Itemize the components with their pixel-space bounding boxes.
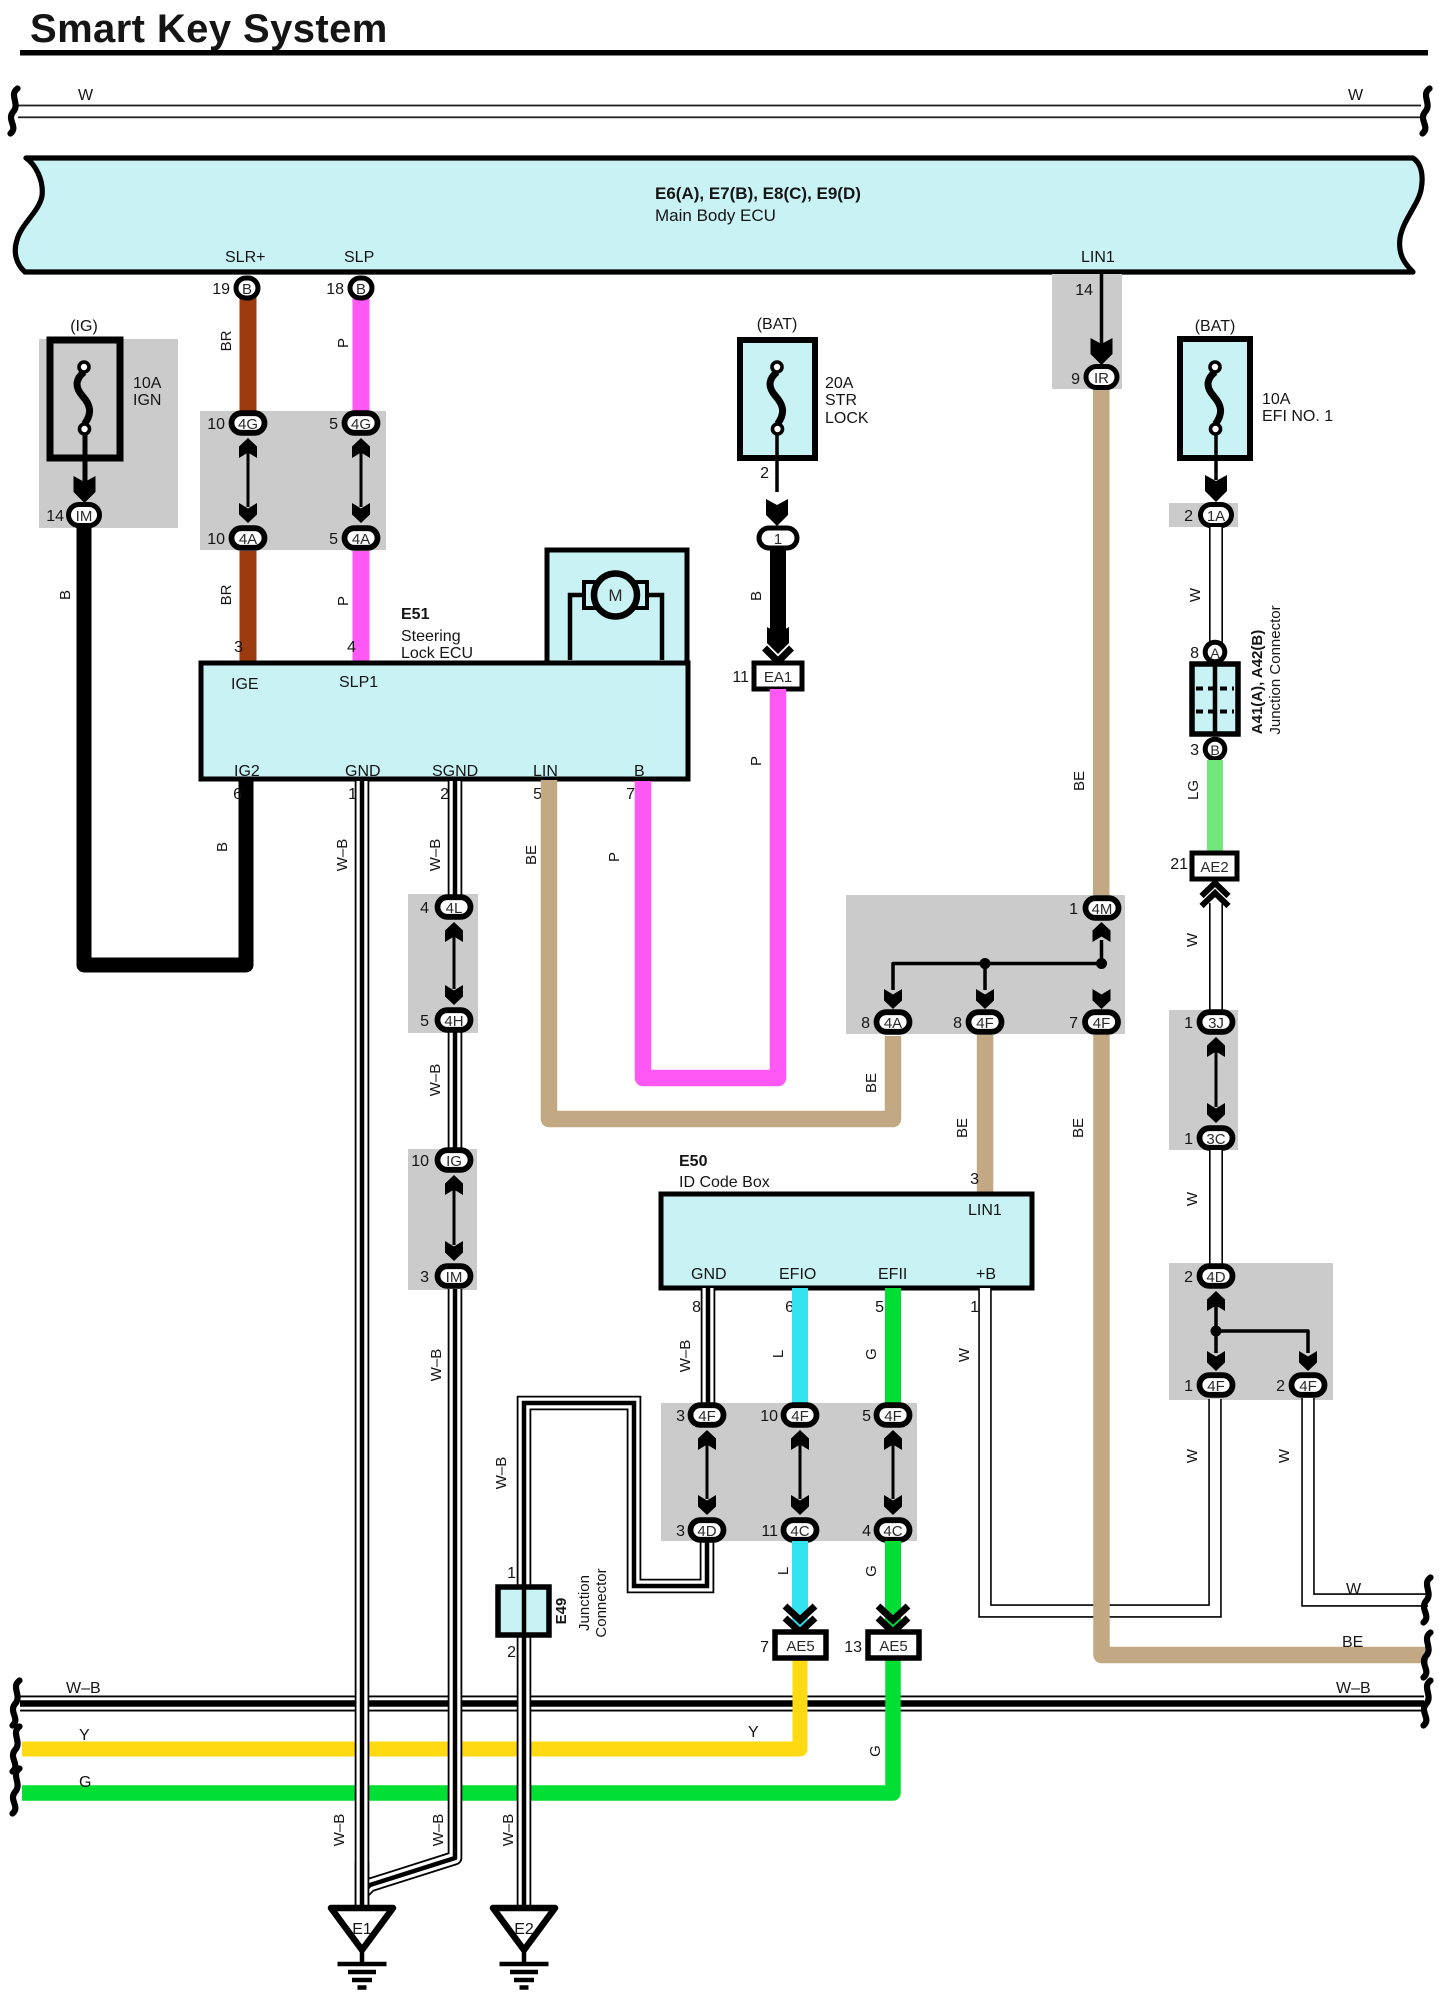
svg-text:B: B bbox=[57, 590, 74, 600]
arrow up into AE2 bbox=[1202, 883, 1229, 906]
svg-text:G: G bbox=[79, 1774, 91, 1791]
connector 4H pin 5 bbox=[438, 1010, 471, 1030]
svg-text:LOCK: LOCK bbox=[825, 410, 869, 427]
gray panel 1A bbox=[1169, 503, 1238, 527]
wire L from E50 EFIO to 4F bbox=[792, 1288, 808, 1404]
svg-text:W: W bbox=[1346, 1581, 1362, 1598]
wire B from connector 1 to EA1 bbox=[770, 548, 786, 640]
svg-text:Y: Y bbox=[79, 1727, 90, 1744]
svg-text:W: W bbox=[1184, 1448, 1201, 1463]
svg-text:ID Code Box: ID Code Box bbox=[679, 1174, 770, 1191]
svg-text:2: 2 bbox=[1184, 508, 1193, 525]
wire W from 4F2 to right edge bbox=[1308, 1398, 1428, 1600]
wire G from E50 EFII to 4F bbox=[885, 1288, 901, 1404]
svg-text:3: 3 bbox=[676, 1408, 685, 1425]
svg-text:5: 5 bbox=[329, 531, 338, 548]
svg-text:BE: BE bbox=[523, 845, 540, 865]
svg-text:4: 4 bbox=[862, 1523, 871, 1540]
svg-text:W–B: W–B bbox=[500, 1814, 517, 1847]
svg-text:W: W bbox=[1187, 587, 1204, 602]
svg-text:4F: 4F bbox=[1299, 1378, 1317, 1395]
connector 4D pin 2 bbox=[1200, 1266, 1233, 1286]
svg-text:2: 2 bbox=[760, 465, 769, 482]
svg-text:1: 1 bbox=[1184, 1378, 1193, 1395]
svg-text:W–B: W–B bbox=[430, 1814, 447, 1847]
wire G from 4C4 to AE5 bbox=[885, 1541, 901, 1628]
svg-text:7: 7 bbox=[760, 1639, 769, 1656]
wire W from E50 +B to 4F1 bbox=[985, 1288, 1215, 1611]
svg-text:13: 13 bbox=[844, 1639, 862, 1656]
gray panel 3J/3C bbox=[1169, 1010, 1238, 1150]
connector 3J pin 1 bbox=[1200, 1012, 1233, 1032]
svg-text:4F: 4F bbox=[1093, 1015, 1111, 1032]
svg-text:1A: 1A bbox=[1207, 508, 1225, 525]
wire BE from E51 LIN to 4A bbox=[549, 780, 893, 1119]
svg-text:A: A bbox=[1210, 645, 1220, 661]
svg-text:SLP1: SLP1 bbox=[339, 674, 378, 691]
wire LG from B to AE2 bbox=[1207, 760, 1223, 854]
svg-text:E6(A), E7(B), E8(C), E9(D): E6(A), E7(B), E8(C), E9(D) bbox=[655, 184, 861, 203]
svg-text:3: 3 bbox=[234, 639, 243, 656]
junction arrows 4L to 4H bbox=[445, 922, 463, 1005]
svg-text:Y: Y bbox=[748, 1724, 759, 1741]
svg-text:10A: 10A bbox=[133, 375, 162, 392]
junction arrows IG to IM bbox=[445, 1175, 463, 1261]
connector AE2 pin 21 bbox=[1192, 853, 1237, 879]
junction arrows 3J to 3C bbox=[1207, 1037, 1225, 1123]
svg-text:P: P bbox=[335, 596, 352, 606]
connector 4F pin 8 bbox=[969, 1012, 1002, 1032]
wire BR upper segment bbox=[240, 297, 257, 411]
bus wire G from AE5 no.13 bbox=[22, 1658, 893, 1793]
svg-text:G: G bbox=[863, 1348, 880, 1360]
svg-text:1: 1 bbox=[774, 531, 782, 548]
continuation mark top-right bbox=[1423, 89, 1430, 134]
svg-text:BE: BE bbox=[954, 1118, 971, 1138]
svg-text:B: B bbox=[634, 763, 645, 780]
pin 18 connector B bbox=[350, 278, 372, 298]
svg-text:L: L bbox=[775, 1567, 792, 1575]
junction arrows 4G to 4A col2 bbox=[352, 438, 370, 523]
connector 4F pin 2 bbox=[1292, 1375, 1325, 1395]
svg-text:LIN1: LIN1 bbox=[968, 1202, 1002, 1219]
connector 4F pin 3 bbox=[691, 1405, 724, 1425]
fuse 10A EFI NO.1 bbox=[1180, 318, 1333, 502]
wire W-B from E51 SGND upper bbox=[448, 781, 463, 896]
svg-text:E1: E1 bbox=[352, 1921, 372, 1938]
svg-text:19: 19 bbox=[212, 281, 230, 298]
svg-text:4A: 4A bbox=[239, 531, 257, 548]
svg-text:1: 1 bbox=[1069, 901, 1078, 918]
svg-text:M: M bbox=[608, 586, 622, 605]
svg-text:5: 5 bbox=[533, 786, 542, 803]
wire L from 4C11 to AE5 bbox=[792, 1541, 808, 1628]
svg-text:W: W bbox=[1348, 87, 1364, 104]
svg-text:3: 3 bbox=[676, 1523, 685, 1540]
junction arrows 4F to 4C col2 bbox=[791, 1430, 809, 1515]
junction arrows 4G to 4A col1 bbox=[239, 438, 257, 523]
svg-text:7: 7 bbox=[626, 786, 635, 803]
wire P lower segment bbox=[353, 551, 370, 663]
junction arrows 4F to 4D col1 bbox=[698, 1430, 716, 1515]
connector 4G pin 5 bbox=[345, 413, 378, 433]
continuation mark Y left bbox=[13, 1727, 20, 1772]
svg-text:G: G bbox=[863, 1565, 880, 1577]
connector 3C pin 1 bbox=[1200, 1128, 1233, 1148]
gray panel 4D/4F/4F bbox=[1169, 1263, 1333, 1400]
connector 4F pin 10 bbox=[784, 1405, 817, 1425]
continuation mark W-B left bbox=[13, 1681, 20, 1726]
svg-text:E49: E49 bbox=[553, 1598, 570, 1625]
svg-text:10: 10 bbox=[207, 416, 225, 433]
wire W-B SGND mid bbox=[448, 1032, 463, 1148]
svg-text:Smart Key System: Smart Key System bbox=[30, 7, 388, 51]
arrow into AE5 no.7 bbox=[785, 1606, 815, 1632]
wire P upper segment bbox=[353, 297, 370, 411]
gray panel IG/IM bbox=[408, 1149, 477, 1290]
continuation mark G left bbox=[13, 1769, 20, 1814]
svg-text:8: 8 bbox=[953, 1015, 962, 1032]
svg-text:P: P bbox=[748, 756, 765, 766]
svg-text:AE5: AE5 bbox=[879, 1638, 907, 1655]
svg-text:4C: 4C bbox=[883, 1523, 902, 1540]
gray panel 4G/4A bbox=[200, 411, 386, 550]
svg-text:18: 18 bbox=[326, 281, 344, 298]
svg-text:A41(A), A42(B): A41(A), A42(B) bbox=[1249, 630, 1266, 734]
svg-text:Junction Connector: Junction Connector bbox=[1267, 605, 1284, 734]
svg-text:4: 4 bbox=[420, 900, 429, 917]
continuation mark W right bbox=[1424, 1578, 1431, 1623]
continuation mark BE right bbox=[1424, 1633, 1431, 1678]
svg-text:Junction: Junction bbox=[576, 1575, 593, 1631]
svg-text:EA1: EA1 bbox=[764, 669, 792, 686]
svg-text:4A: 4A bbox=[884, 1015, 902, 1032]
svg-text:BE: BE bbox=[1071, 771, 1088, 791]
ECU E51 Steering Lock ECU box bbox=[201, 606, 688, 780]
connector 4A pin 10 bbox=[232, 528, 265, 548]
connector AE5 pin 13 bbox=[868, 1632, 919, 1658]
svg-text:GND: GND bbox=[345, 763, 381, 780]
svg-text:6: 6 bbox=[233, 786, 242, 803]
wire W-B SGND lower merging to E1 bbox=[364, 1289, 455, 1891]
svg-text:2: 2 bbox=[507, 1644, 516, 1661]
wire W-B from E49 to E2 bbox=[517, 1634, 532, 1906]
svg-text:BE: BE bbox=[1070, 1118, 1087, 1138]
wire LIN1 pin 14 to IR bbox=[1091, 274, 1113, 365]
svg-text:W–B: W–B bbox=[334, 839, 351, 872]
wire P from EA1 via U-turn to E51 pin7 bbox=[643, 689, 778, 1078]
svg-text:10: 10 bbox=[207, 531, 225, 548]
svg-text:5: 5 bbox=[875, 1299, 884, 1316]
svg-text:(IG): (IG) bbox=[70, 318, 98, 335]
svg-text:4F: 4F bbox=[698, 1408, 716, 1425]
svg-text:IGE: IGE bbox=[231, 676, 259, 693]
svg-text:L: L bbox=[770, 1350, 787, 1358]
svg-text:B: B bbox=[748, 591, 765, 601]
svg-text:W–B: W–B bbox=[493, 1457, 510, 1490]
svg-text:3C: 3C bbox=[1206, 1131, 1225, 1148]
svg-text:(BAT): (BAT) bbox=[757, 316, 798, 333]
svg-text:EFII: EFII bbox=[878, 1266, 907, 1283]
svg-text:Lock ECU: Lock ECU bbox=[401, 645, 473, 662]
svg-text:2: 2 bbox=[1184, 1269, 1193, 1286]
connector AE5 pin 7 bbox=[775, 1632, 826, 1658]
wire W from AE2 to 3J bbox=[1209, 903, 1223, 1012]
connector IG pin 10 bbox=[438, 1150, 471, 1170]
svg-text:W–B: W–B bbox=[677, 1340, 694, 1373]
svg-text:BE: BE bbox=[1342, 1634, 1363, 1651]
svg-text:LG: LG bbox=[1185, 780, 1202, 800]
svg-text:4G: 4G bbox=[351, 416, 371, 433]
svg-text:4F: 4F bbox=[976, 1015, 994, 1032]
svg-text:14: 14 bbox=[1075, 282, 1093, 299]
svg-text:Connector: Connector bbox=[593, 1568, 610, 1637]
ground E2 bbox=[493, 1908, 555, 1988]
svg-text:9: 9 bbox=[1071, 371, 1080, 388]
svg-text:IG2: IG2 bbox=[234, 763, 260, 780]
svg-text:W: W bbox=[78, 87, 94, 104]
wire W from 1A to junction A bbox=[1209, 527, 1223, 645]
svg-text:B: B bbox=[1210, 742, 1219, 758]
svg-text:14: 14 bbox=[46, 508, 64, 525]
motor M symbol bbox=[570, 574, 662, 661]
svg-text:W: W bbox=[956, 1347, 973, 1362]
svg-text:B: B bbox=[242, 281, 252, 298]
svg-text:1: 1 bbox=[1184, 1131, 1193, 1148]
svg-text:E51: E51 bbox=[401, 606, 430, 623]
svg-text:BR: BR bbox=[218, 584, 235, 605]
svg-text:4A: 4A bbox=[352, 531, 370, 548]
svg-text:SLP: SLP bbox=[344, 249, 374, 266]
svg-text:W–B: W–B bbox=[66, 1680, 101, 1697]
svg-text:AE2: AE2 bbox=[1200, 859, 1228, 876]
page title bbox=[20, 7, 1428, 56]
gray panel 4M/4A/4F/4F junction block bbox=[846, 895, 1125, 1034]
connector 4D pin 3 bbox=[691, 1520, 724, 1540]
connector 4L pin 4 bbox=[438, 897, 471, 917]
wire BR lower segment bbox=[240, 551, 257, 663]
svg-text:4F: 4F bbox=[1207, 1378, 1225, 1395]
svg-text:3J: 3J bbox=[1208, 1015, 1224, 1032]
svg-text:4L: 4L bbox=[446, 900, 463, 917]
svg-text:W: W bbox=[1184, 1191, 1201, 1206]
svg-text:4F: 4F bbox=[791, 1408, 809, 1425]
svg-text:4F: 4F bbox=[884, 1408, 902, 1425]
fuse 20A STR LOCK bbox=[740, 316, 869, 526]
fuse 10A IGN bbox=[50, 318, 162, 503]
svg-text:SGND: SGND bbox=[432, 763, 478, 780]
svg-text:LIN1: LIN1 bbox=[1081, 249, 1115, 266]
bus W-B bottom bbox=[20, 1696, 1424, 1712]
wire B black from IM to IG2 bbox=[84, 527, 246, 965]
svg-text:W–B: W–B bbox=[1336, 1680, 1371, 1697]
svg-text:5: 5 bbox=[862, 1408, 871, 1425]
connector IM pin 3 bbox=[438, 1266, 471, 1286]
svg-text:+B: +B bbox=[976, 1266, 996, 1283]
svg-text:10A: 10A bbox=[1262, 391, 1291, 408]
svg-text:(BAT): (BAT) bbox=[1195, 318, 1236, 335]
svg-text:BR: BR bbox=[218, 330, 235, 351]
svg-text:SLR+: SLR+ bbox=[225, 249, 265, 266]
wire BE from IR to 4M bbox=[1093, 390, 1110, 896]
svg-text:E50: E50 bbox=[679, 1153, 708, 1170]
svg-text:10: 10 bbox=[411, 1153, 429, 1170]
connector 4F pin 5 bbox=[877, 1405, 910, 1425]
junction tree 4D to 4F pair bbox=[1207, 1291, 1317, 1371]
ECU E6(A),E7(B),E8(C),E9(D) Main Body ECU box bbox=[15, 158, 1422, 272]
svg-text:G: G bbox=[867, 1745, 884, 1757]
svg-text:IM: IM bbox=[446, 1269, 463, 1286]
svg-text:4M: 4M bbox=[1092, 901, 1113, 918]
junction A circle pin 8 bbox=[1205, 642, 1225, 662]
connector IR pin 9 bbox=[1086, 367, 1117, 388]
gray panel 4L/4H bbox=[408, 894, 478, 1033]
svg-text:W–B: W–B bbox=[427, 839, 444, 872]
ECU E50 ID Code Box bbox=[661, 1153, 1032, 1288]
gray panel 4F/4C row bbox=[661, 1403, 917, 1541]
svg-text:2: 2 bbox=[1276, 1378, 1285, 1395]
svg-text:GND: GND bbox=[691, 1266, 727, 1283]
wire BE from 4F8 to E50 LIN1 bbox=[977, 1035, 994, 1195]
gray panel LIN1/IR bbox=[1052, 274, 1122, 389]
junction arrows 4F to 4C col3 bbox=[884, 1430, 902, 1515]
svg-text:IGN: IGN bbox=[133, 392, 161, 409]
svg-text:1: 1 bbox=[970, 1299, 979, 1316]
svg-text:IM: IM bbox=[76, 508, 93, 525]
junction connector A41(A),A42(B) box bbox=[1192, 605, 1284, 734]
svg-text:B: B bbox=[356, 281, 366, 298]
continuation mark W-B right bbox=[1424, 1681, 1431, 1726]
svg-text:IR: IR bbox=[1094, 370, 1109, 387]
svg-text:W: W bbox=[1184, 932, 1201, 947]
svg-text:W–B: W–B bbox=[428, 1349, 445, 1382]
junction B circle pin 3 bbox=[1205, 739, 1225, 759]
connector 4C pin 4 bbox=[877, 1520, 910, 1540]
svg-text:3: 3 bbox=[420, 1269, 429, 1286]
svg-text:Steering: Steering bbox=[401, 628, 461, 645]
svg-text:W–B: W–B bbox=[331, 1814, 348, 1847]
connector 4F pin 1 bbox=[1200, 1375, 1233, 1395]
svg-text:LIN: LIN bbox=[533, 763, 558, 780]
svg-text:8: 8 bbox=[692, 1299, 701, 1316]
svg-text:EFI NO. 1: EFI NO. 1 bbox=[1262, 408, 1333, 425]
svg-text:20A: 20A bbox=[825, 375, 854, 392]
svg-text:1: 1 bbox=[1184, 1015, 1193, 1032]
svg-text:B: B bbox=[214, 842, 231, 852]
svg-text:3: 3 bbox=[1190, 742, 1199, 759]
wire W from 3C to 4D bbox=[1209, 1150, 1223, 1265]
svg-text:7: 7 bbox=[1069, 1015, 1078, 1032]
connector EA1 pin 11 bbox=[754, 663, 802, 689]
svg-text:W–B: W–B bbox=[427, 1064, 444, 1097]
svg-text:5: 5 bbox=[420, 1013, 429, 1030]
svg-text:P: P bbox=[335, 338, 352, 348]
motor enclosure of E51 bbox=[547, 550, 687, 663]
svg-text:5: 5 bbox=[329, 416, 338, 433]
wire W-B from E50 GND through 4F/4D to E49 and E2 bbox=[701, 1288, 716, 1404]
gray panel IG fuse bbox=[39, 339, 178, 528]
svg-text:4D: 4D bbox=[1206, 1269, 1225, 1286]
svg-text:4H: 4H bbox=[444, 1013, 463, 1030]
connector 4M pin 1 bbox=[1086, 898, 1119, 918]
svg-text:11: 11 bbox=[761, 1523, 778, 1540]
svg-text:4D: 4D bbox=[697, 1523, 716, 1540]
svg-text:4C: 4C bbox=[790, 1523, 809, 1540]
wire W top bus bbox=[18, 105, 1421, 119]
junction connector E49 bbox=[498, 1568, 610, 1637]
wire W-B from E51 GND to E1 bbox=[355, 781, 370, 1906]
wire BE from 4F7 down and right to edge bbox=[1102, 1035, 1429, 1655]
svg-text:21: 21 bbox=[1170, 856, 1188, 873]
svg-text:8: 8 bbox=[861, 1015, 870, 1032]
connector 4F pin 7 bbox=[1085, 1012, 1118, 1032]
svg-text:4G: 4G bbox=[238, 416, 258, 433]
arrow into AE5 no.13 bbox=[878, 1606, 908, 1632]
svg-text:4: 4 bbox=[347, 639, 356, 656]
connector 4A pin 8 bbox=[877, 1012, 910, 1032]
svg-text:AE5: AE5 bbox=[786, 1638, 814, 1655]
svg-text:3: 3 bbox=[970, 1171, 979, 1188]
connector 4C pin 11 bbox=[784, 1520, 817, 1540]
svg-text:STR: STR bbox=[825, 392, 857, 409]
connector 1A pin 2 bbox=[1201, 505, 1232, 526]
svg-text:Main Body ECU: Main Body ECU bbox=[655, 206, 776, 225]
junction block 4M tree bbox=[884, 922, 1111, 1009]
continuation mark top-left bbox=[11, 89, 18, 134]
svg-text:W: W bbox=[1276, 1448, 1293, 1463]
svg-text:E2: E2 bbox=[514, 1921, 534, 1938]
svg-text:10: 10 bbox=[760, 1408, 778, 1425]
bus wire Y from AE5 no.7 bbox=[22, 1658, 800, 1749]
pin 19 connector B bbox=[236, 278, 258, 298]
svg-text:8: 8 bbox=[1190, 645, 1199, 662]
wire W-B E1 continuation at merge bbox=[355, 1862, 370, 1906]
wire W-B from 4D loop to E49 bbox=[524, 1403, 707, 1589]
svg-text:EFIO: EFIO bbox=[779, 1266, 816, 1283]
svg-text:P: P bbox=[606, 852, 623, 862]
connector IM pin 14 bbox=[69, 505, 100, 526]
svg-text:11: 11 bbox=[732, 669, 749, 686]
ground E1 bbox=[331, 1908, 393, 1988]
svg-text:IG: IG bbox=[446, 1153, 462, 1170]
connector 1 bbox=[759, 528, 797, 548]
svg-text:BE: BE bbox=[863, 1073, 880, 1093]
arrow into EA1 bbox=[765, 627, 792, 662]
connector 4A pin 5 bbox=[345, 528, 378, 548]
svg-text:1: 1 bbox=[507, 1565, 516, 1582]
connector 4G pin 10 bbox=[232, 413, 265, 433]
